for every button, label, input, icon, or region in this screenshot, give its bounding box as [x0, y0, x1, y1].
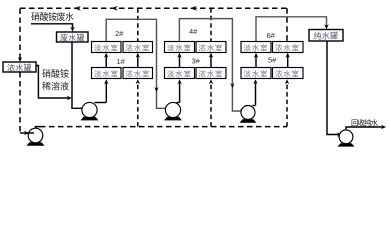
- svg-text:淡水室: 淡水室: [94, 42, 119, 52]
- tank 浓水罐: [3, 62, 36, 72]
- tank 纯水罐: [309, 30, 343, 42]
- svg-text:淡水室: 淡水室: [167, 42, 192, 52]
- arrow right: recovered water out: [381, 125, 386, 129]
- svg-text:4#: 4#: [189, 27, 198, 36]
- svg-text:1#: 1#: [117, 57, 126, 66]
- svg-text:淡水室: 淡水室: [244, 68, 269, 78]
- group2 loop: 4# top up, over, down to pump3: [179, 19, 242, 111]
- cell 1# 淡水室: [92, 68, 122, 79]
- pump P4 (product pump): [338, 127, 384, 147]
- wire: connector 5#淡 to 6#淡: [255, 56, 257, 68]
- pump P2 (group 2 pump): [164, 102, 182, 120]
- wire: 纯水罐 down to pump4: [327, 41, 339, 135]
- svg-text:淡水室: 淡水室: [244, 42, 269, 52]
- group3 out: 6# top up, over to 纯水罐: [256, 17, 327, 42]
- svg-text:浓水室: 浓水室: [275, 42, 300, 52]
- arrow left on top dashed line (x=80): [74, 6, 81, 11]
- svg-text:浓水室: 浓水室: [126, 42, 151, 52]
- cell 6# 淡水室: [241, 42, 271, 53]
- arrow down into 废水罐: [70, 27, 74, 32]
- svg-text:稀溶液: 稀溶液: [42, 81, 69, 92]
- cell 2# 浓水室: [123, 42, 153, 53]
- svg-text:回收纯水: 回收纯水: [351, 118, 379, 128]
- cell 3# 浓水室: [196, 68, 226, 79]
- wire: connector 5#浓 to 6#浓: [287, 56, 289, 68]
- svg-text:浓水室: 浓水室: [126, 68, 151, 78]
- wire: connector 1#淡 to 2#淡: [105, 56, 107, 68]
- arrow into pump1: [83, 106, 88, 110]
- cell 2# 淡水室: [92, 42, 122, 53]
- pump P3 (group 3 pump): [240, 106, 257, 123]
- svg-text:淡水室: 淡水室: [94, 68, 119, 78]
- svg-text:6#: 6#: [267, 31, 276, 40]
- group1 loop: 2# top up, over, down to pump2: [106, 19, 167, 108]
- wire: concentrate return dashed loop (left vertical + top horizontal + right drop): [20, 8, 287, 59]
- pump P1 (feed pump, group 1): [81, 102, 107, 120]
- cell 5# 浓水室: [273, 68, 304, 79]
- wire: pump1 riser into 1# 淡水室: [105, 83, 107, 103]
- cell 1# 浓水室: [123, 68, 153, 79]
- svg-text:浓水室: 浓水室: [199, 42, 224, 52]
- wire: connector 3#浓 to 4#浓: [210, 56, 212, 68]
- wire: pump3 riser into 5# 淡水室: [255, 83, 257, 106]
- svg-text:废水罐: 废水罐: [60, 32, 85, 42]
- svg-text:浓水罐: 浓水罐: [7, 62, 32, 72]
- wire: pump2 riser into 3# 淡水室: [179, 83, 181, 103]
- cell 5# 淡水室: [241, 68, 271, 79]
- wire: dashed drop from top line to 4# 浓水室: [210, 8, 212, 41]
- arrow into pump0: [24, 131, 29, 135]
- cell 4# 淡水室: [165, 42, 195, 53]
- cell 6# 浓水室: [273, 42, 304, 53]
- wire: bottom dashed concentrate supply line: [40, 126, 287, 128]
- svg-text:2#: 2#: [115, 29, 124, 38]
- wire: dashed riser to 1# 浓水室: [137, 83, 139, 127]
- svg-text:硝酸铵: 硝酸铵: [42, 68, 69, 79]
- wire: connector 3#淡 to 4#淡: [179, 56, 181, 68]
- svg-text:3#: 3#: [192, 57, 201, 66]
- tank 废水罐: [57, 32, 89, 42]
- svg-text:浓水室: 浓水室: [199, 68, 224, 78]
- arrow right into feed junction: [67, 96, 72, 100]
- wire: dashed riser to 5# 浓水室: [286, 83, 288, 127]
- wire: 废水罐 down to pump1: [72, 42, 85, 108]
- svg-text:5#: 5#: [268, 56, 277, 65]
- wire: connector 1#浓 to 2#浓: [137, 56, 139, 68]
- svg-text:淡水室: 淡水室: [167, 68, 192, 78]
- cell 3# 淡水室: [165, 68, 195, 79]
- svg-text:硝酸铵废水: 硝酸铵废水: [31, 11, 74, 22]
- arrow into 浓水罐 top: [18, 57, 22, 62]
- wire: dashed riser to 3# 浓水室: [210, 83, 212, 127]
- cell 4# 浓水室: [196, 42, 226, 53]
- wire: dashed drop from top line to 2# 浓水室: [137, 8, 139, 41]
- svg-text:浓水室: 浓水室: [275, 68, 300, 78]
- pump P0 (concentrate pump): [26, 127, 45, 146]
- arrow left on top dashed line (x=196): [190, 6, 197, 11]
- wire: feed line under label into 废水罐: [31, 24, 73, 29]
- arrow left on top dashed line (x=116): [111, 6, 118, 11]
- svg-text:纯水罐: 纯水罐: [314, 31, 339, 41]
- wire: 浓水罐 overflow to feed line: [36, 66, 69, 99]
- wire: 浓水罐 bottom dashed down to pump0: [19, 72, 21, 133]
